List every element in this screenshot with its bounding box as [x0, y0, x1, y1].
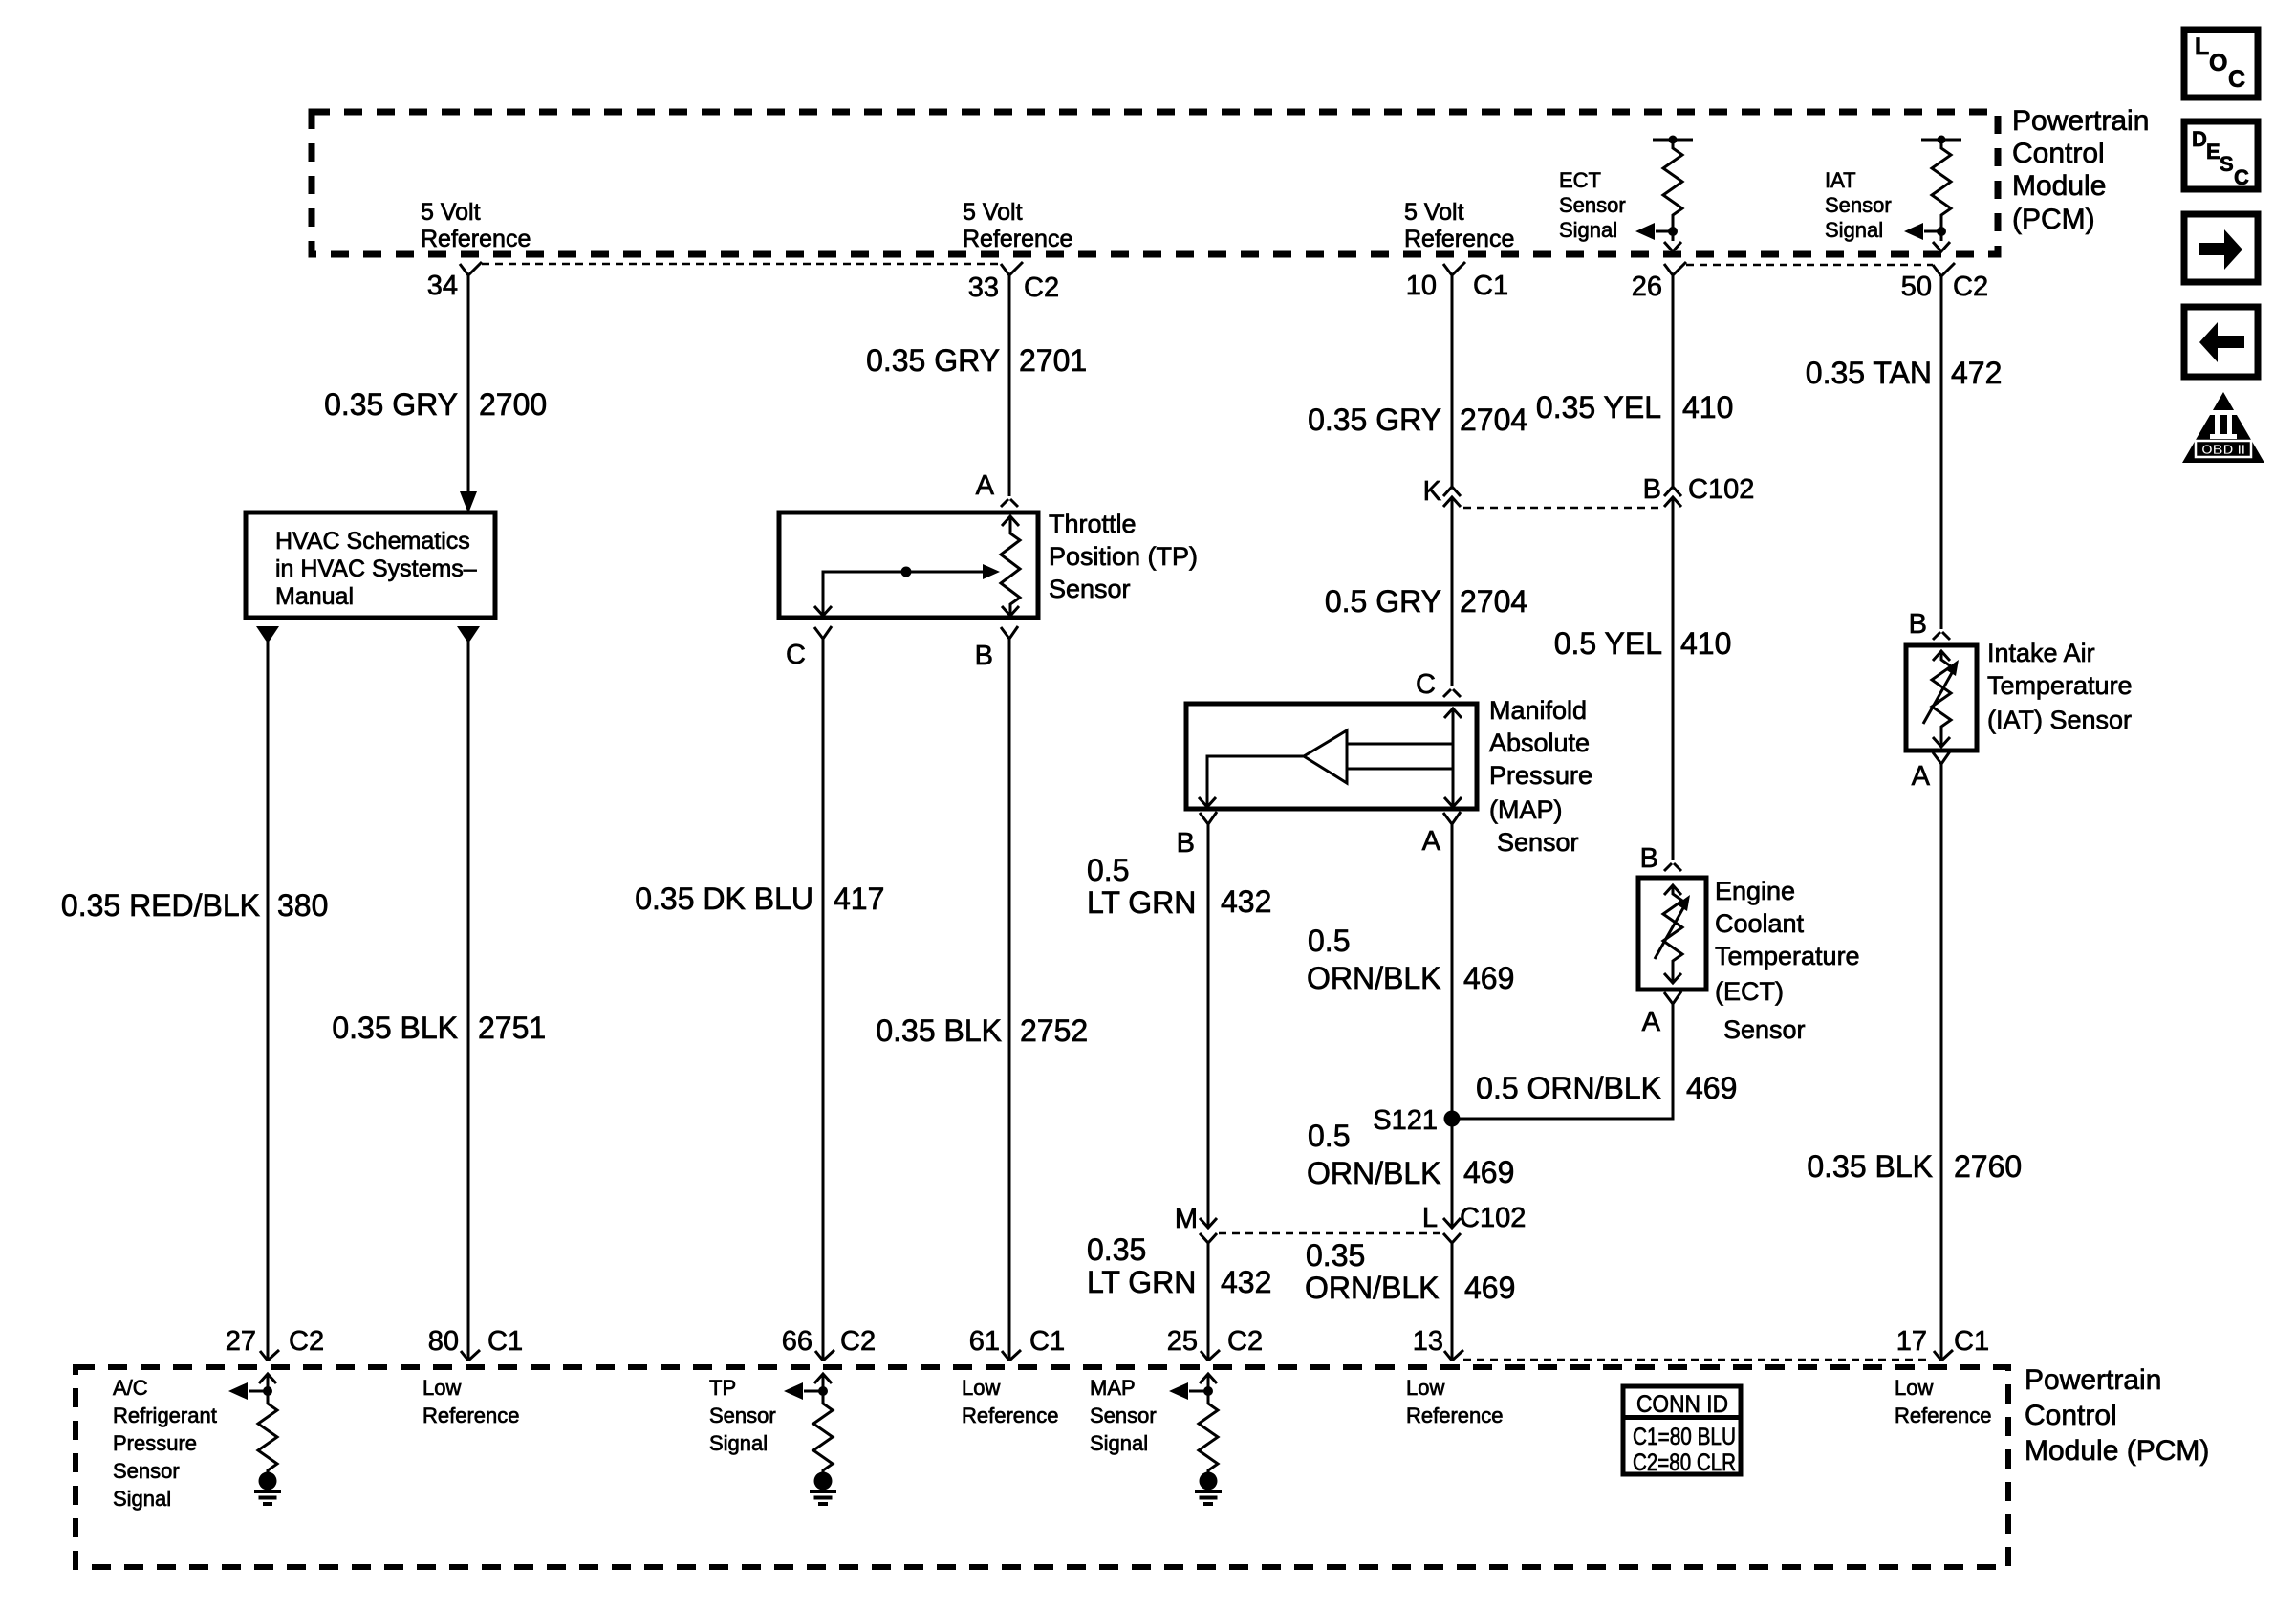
label wire 0.35 TAN 472 — [1806, 356, 2003, 390]
HVAC Schematics reference box — [246, 512, 495, 618]
svg-text:Low: Low — [962, 1376, 1000, 1400]
svg-text:OBD II: OBD II — [2201, 442, 2245, 458]
svg-text:66: 66 — [782, 1326, 812, 1357]
IAT sensor name — [1987, 639, 2133, 734]
wire MAP output — [1199, 756, 1304, 807]
svg-text:C1: C1 — [1029, 1326, 1065, 1357]
svg-text:Signal: Signal — [1090, 1431, 1148, 1455]
svg-text:C102: C102 — [1688, 474, 1754, 505]
svg-text:B: B — [1640, 843, 1658, 874]
icon forward arrow button — [2184, 214, 2258, 282]
label wire 0.35 BLK 2752 — [876, 1013, 1088, 1048]
label wire 0.35 GRY 2704 — [1308, 403, 1527, 437]
connector pin 10 (PCM C1) — [1443, 262, 1465, 287]
Throttle Position sensor box — [779, 512, 1038, 618]
MAP sensor name — [1489, 696, 1592, 857]
resistor IAT pullup in PCM — [1921, 136, 1961, 252]
PCM module (top) dashed outline — [312, 112, 1998, 254]
svg-text:Throttle: Throttle — [1049, 510, 1137, 538]
svg-text:Sensor: Sensor — [1497, 828, 1579, 857]
svg-text:0.35 BLK: 0.35 BLK — [1807, 1149, 1933, 1184]
wire 0.35 GRY 2700 pin34 to HVAC box — [467, 275, 470, 491]
connector dashed harness line 13 to 17 — [1463, 1359, 1932, 1361]
svg-text:61: 61 — [969, 1326, 1000, 1357]
table CONN ID — [1623, 1386, 1741, 1476]
svg-text:0.35 GRY: 0.35 GRY — [866, 343, 1000, 378]
label wire 0.35 GRY 2701 — [866, 343, 1087, 378]
wire TP wiper — [814, 564, 1000, 616]
wire 0.35 TAN 472 pin50 to IAT B — [1940, 276, 1943, 629]
wire 0.35 DK BLU 417 TP C to pin66 — [822, 639, 825, 1360]
svg-text:L: L — [2195, 33, 2209, 60]
net Low Reference label (pin 61) — [962, 1376, 1059, 1427]
connector pin 27 (PCM C2) — [260, 1350, 279, 1361]
icon DESC button — [2184, 121, 2258, 189]
connector pin 13 (PCM C1) — [1444, 1350, 1463, 1361]
svg-text:Low: Low — [1406, 1376, 1444, 1400]
connector L arrow (C102) — [1443, 1218, 1461, 1228]
icon OBD II badge — [2182, 392, 2264, 463]
svg-text:S121: S121 — [1373, 1105, 1438, 1136]
svg-text:0.35 DK BLU: 0.35 DK BLU — [635, 882, 813, 916]
net TP Sensor Signal label — [709, 1376, 776, 1455]
connector MAP pin C — [1443, 689, 1461, 697]
label wire 0.5 ORN/BLK 469 branch — [1476, 1071, 1737, 1105]
resistor TP element — [1001, 516, 1020, 616]
connector M arrow (C102) — [1200, 1218, 1217, 1228]
svg-text:MAP: MAP — [1090, 1376, 1136, 1400]
svg-text:C2: C2 — [840, 1326, 876, 1357]
svg-text:Sensor: Sensor — [709, 1404, 776, 1427]
resistor MAP signal input network — [1169, 1374, 1218, 1491]
net Low Reference label (pin 17) — [1895, 1376, 1992, 1427]
connector pin 34 (PCM C2) — [460, 262, 482, 287]
svg-text:C: C — [1416, 669, 1436, 700]
svg-text:Engine: Engine — [1715, 877, 1795, 905]
connector pin 50 (PCM C2) — [1933, 263, 1955, 287]
svg-text:S: S — [2220, 152, 2234, 176]
svg-text:Temperature: Temperature — [1987, 671, 2133, 700]
svg-text:469: 469 — [1463, 961, 1514, 995]
svg-text:469: 469 — [1464, 1271, 1515, 1305]
svg-text:417: 417 — [834, 882, 884, 916]
svg-text:380: 380 — [277, 888, 328, 923]
wire ECT sensor signal takeoff with arrow — [1635, 223, 1678, 240]
connector B arrow below — [1664, 497, 1681, 509]
svg-text:Sensor: Sensor — [113, 1459, 180, 1483]
connector IAT pin B — [1933, 632, 1950, 640]
net IAT Sensor Signal label — [1825, 168, 1892, 242]
svg-text:5 Volt: 5 Volt — [421, 199, 481, 226]
net 5 Volt Reference label (pin 10) — [1404, 199, 1514, 252]
wire 0.35 GRY 2704 pin10 to K — [1451, 275, 1454, 487]
connector K at C102 (chevron) — [1443, 487, 1461, 496]
svg-text:0.35 RED/BLK: 0.35 RED/BLK — [61, 888, 260, 923]
PCM (top) name text — [2012, 105, 2149, 235]
label wire 0.35 DK BLU 417 — [635, 882, 884, 916]
connector ECT pin B — [1664, 863, 1681, 871]
label wire 0.5 ORN/BLK 469 upper — [1307, 924, 1514, 995]
connector TP pin A — [1001, 499, 1018, 507]
wire 0.5 ORN/BLK 469 S121 to ECT A — [1452, 1004, 1673, 1119]
svg-text:80: 80 — [428, 1326, 459, 1357]
ground A/C network — [254, 1491, 281, 1504]
wire 0.35 BLK 2752 TP B to pin61 — [1008, 639, 1011, 1360]
net ECT Sensor Signal label — [1559, 168, 1626, 242]
connector pin 17 (PCM C1) — [1934, 1350, 1953, 1361]
svg-text:2704: 2704 — [1460, 403, 1527, 437]
svg-text:IAT: IAT — [1825, 168, 1856, 192]
svg-text:C: C — [786, 640, 806, 670]
net 5 Volt Reference label (pin 34) — [421, 199, 531, 252]
label wire 0.5 YEL 410 — [1554, 626, 1732, 661]
wire 0.5 ORN/BLK 469 MAP A to S121 — [1451, 824, 1454, 1228]
svg-text:HVAC Schematics: HVAC Schematics — [275, 528, 470, 555]
junction S121 — [1444, 1111, 1461, 1127]
svg-text:5 Volt: 5 Volt — [963, 199, 1023, 226]
svg-text:Reference: Reference — [422, 1404, 520, 1427]
ground TP network — [810, 1491, 836, 1504]
svg-text:in HVAC Systems–: in HVAC Systems– — [275, 555, 477, 582]
thermistor IAT element — [1923, 651, 1959, 747]
connector dashed C102 line K to B — [1463, 507, 1661, 510]
PCM module (bottom) dashed outline — [76, 1367, 2008, 1567]
svg-text:B: B — [1177, 828, 1195, 859]
svg-text:C: C — [2234, 165, 2249, 189]
svg-text:Reference: Reference — [1406, 1404, 1504, 1427]
svg-text:26: 26 — [1632, 272, 1662, 302]
connector M chevron below — [1200, 1233, 1217, 1243]
connector pin 33 (PCM C2) — [1001, 262, 1023, 287]
label wire 0.35 BLK 2751 — [332, 1011, 546, 1045]
svg-text:A: A — [1912, 761, 1931, 792]
svg-text:Absolute: Absolute — [1489, 729, 1590, 757]
icon back arrow button — [2184, 307, 2258, 377]
svg-text:Signal: Signal — [1825, 218, 1883, 242]
Intake Air Temperature sensor box — [1906, 645, 1977, 751]
wire 0.35 RED/BLK 380 HVAC to pin27 — [267, 642, 270, 1360]
connector pin 66 (PCM C2) — [815, 1350, 834, 1361]
svg-text:C102: C102 — [1460, 1203, 1526, 1233]
net Low Reference label (pin 13) — [1406, 1376, 1504, 1427]
svg-text:0.35 TAN: 0.35 TAN — [1806, 356, 1932, 390]
svg-text:2752: 2752 — [1020, 1013, 1088, 1048]
ground MAP network — [1195, 1491, 1222, 1504]
svg-text:0.35 BLK: 0.35 BLK — [332, 1011, 458, 1045]
net MAP Sensor Signal label — [1090, 1376, 1157, 1455]
svg-text:Reference: Reference — [1895, 1404, 1992, 1427]
TP sensor name — [1049, 510, 1198, 603]
connector IAT pin A — [1933, 751, 1950, 764]
offpage arrow low reference — [457, 626, 480, 643]
wire 0.35 BLK 2751 HVAC to pin80 — [467, 642, 470, 1360]
svg-text:ORN/BLK: ORN/BLK — [1307, 961, 1440, 995]
svg-text:33: 33 — [968, 272, 999, 303]
svg-text:Powertrain: Powertrain — [2025, 1364, 2161, 1396]
svg-text:(ECT): (ECT) — [1715, 977, 1784, 1006]
svg-text:B: B — [1643, 474, 1661, 505]
svg-text:C1: C1 — [1954, 1326, 1989, 1357]
wire 0.5 YEL 410 pin26 to B C102 — [1672, 275, 1675, 487]
connector dashed harness line 26 to 50 — [1686, 264, 1933, 267]
thermistor ECT element — [1655, 885, 1690, 983]
svg-text:Sensor: Sensor — [1723, 1015, 1806, 1044]
svg-text:Signal: Signal — [709, 1431, 768, 1455]
label wire 0.5 GRY 2704 — [1325, 584, 1527, 619]
net A/C Refrigerant Pressure Sensor Signal label — [113, 1376, 217, 1511]
svg-text:469: 469 — [1463, 1155, 1514, 1189]
svg-text:Manifold: Manifold — [1489, 696, 1587, 725]
svg-text:C1: C1 — [1473, 271, 1508, 301]
svg-text:D: D — [2192, 127, 2207, 151]
svg-text:Reference: Reference — [1404, 226, 1514, 252]
connector pin 80 (PCM C1) — [461, 1350, 480, 1361]
svg-text:0.5: 0.5 — [1308, 924, 1350, 958]
resistor ECT pullup in PCM — [1653, 136, 1693, 252]
svg-text:B: B — [1909, 609, 1927, 640]
svg-text:0.5 ORN/BLK: 0.5 ORN/BLK — [1476, 1071, 1661, 1105]
connector L chevron below — [1443, 1233, 1461, 1243]
wire 0.35 ORN/BLK 469 L to pin13 — [1451, 1243, 1454, 1360]
svg-text:2701: 2701 — [1019, 343, 1087, 378]
svg-text:LT GRN: LT GRN — [1087, 885, 1196, 920]
Engine Coolant Temperature sensor box — [1638, 878, 1706, 990]
svg-text:A: A — [1422, 826, 1441, 857]
offpage arrow A/C signal — [256, 626, 279, 643]
svg-text:Refrigerant: Refrigerant — [113, 1404, 217, 1427]
connector TP pin B — [1001, 626, 1018, 639]
svg-text:Sensor: Sensor — [1825, 193, 1892, 217]
svg-text:A/C: A/C — [113, 1376, 148, 1400]
svg-text:C2: C2 — [1024, 272, 1059, 303]
svg-text:2760: 2760 — [1954, 1149, 2022, 1184]
svg-text:A: A — [1642, 1007, 1661, 1037]
svg-text:0.35 GRY: 0.35 GRY — [1308, 403, 1441, 437]
svg-text:50: 50 — [1901, 272, 1932, 302]
svg-text:2751: 2751 — [478, 1011, 546, 1045]
svg-text:0.5: 0.5 — [1308, 1119, 1350, 1153]
svg-text:C2: C2 — [1953, 272, 1988, 302]
svg-text:13: 13 — [1413, 1326, 1443, 1357]
svg-text:Sensor: Sensor — [1090, 1404, 1157, 1427]
connector ECT pin A — [1664, 991, 1681, 1004]
svg-text:C: C — [2228, 66, 2245, 93]
label wire 0.35 LT GRN 432 lower — [1087, 1232, 1271, 1299]
svg-text:ORN/BLK: ORN/BLK — [1305, 1271, 1439, 1305]
svg-text:2704: 2704 — [1460, 584, 1527, 619]
resistor A/C signal input network — [228, 1374, 277, 1491]
svg-text:Sensor: Sensor — [1049, 575, 1131, 603]
wire IAT sensor signal takeoff with arrow — [1904, 223, 1946, 240]
svg-text:LT GRN: LT GRN — [1087, 1265, 1196, 1299]
svg-text:C2=80 CLR: C2=80 CLR — [1633, 1449, 1736, 1476]
net Low Reference label (pin 80) — [422, 1376, 520, 1427]
svg-text:CONN ID: CONN ID — [1636, 1391, 1728, 1418]
svg-text:Pressure: Pressure — [113, 1431, 197, 1455]
svg-text:O: O — [2209, 50, 2227, 76]
op-amp MAP buffer triangle — [1304, 730, 1347, 783]
svg-text:469: 469 — [1686, 1071, 1737, 1105]
wire 0.5 YEL 410 B to ECT B — [1672, 497, 1675, 860]
label wire 0.35 BLK 2760 — [1807, 1149, 2022, 1184]
svg-text:ORN/BLK: ORN/BLK — [1307, 1156, 1440, 1190]
svg-text:C2: C2 — [289, 1326, 324, 1357]
svg-text:0.35 BLK: 0.35 BLK — [876, 1013, 1002, 1048]
icon LOC button — [2184, 30, 2258, 98]
svg-text:5 Volt: 5 Volt — [1404, 199, 1464, 226]
svg-text:Module (PCM): Module (PCM) — [2025, 1435, 2209, 1467]
svg-text:27: 27 — [226, 1326, 256, 1357]
svg-text:(PCM): (PCM) — [2012, 204, 2095, 235]
svg-text:Signal: Signal — [113, 1487, 171, 1511]
wire 0.35 BLK 2760 IAT A to pin17 — [1940, 764, 1943, 1360]
svg-text:A: A — [976, 470, 995, 501]
svg-text:0.5 YEL: 0.5 YEL — [1554, 626, 1662, 661]
connector pin 25 (PCM C2) — [1201, 1350, 1220, 1361]
wire MAP internal vertical — [1347, 708, 1462, 807]
ECT sensor name — [1715, 877, 1860, 1044]
wire 0.35 GRY 2701 pin33 to TP A — [1008, 275, 1011, 496]
label wire 0.5 ORN/BLK 469 lower — [1307, 1119, 1514, 1190]
connector B at C102 (chevron) — [1664, 487, 1681, 496]
svg-text:0.35: 0.35 — [1087, 1232, 1146, 1267]
connector pin 61 (PCM C1) — [1002, 1350, 1021, 1361]
svg-text:Intake Air: Intake Air — [1987, 639, 2095, 667]
svg-text:Control: Control — [2012, 138, 2105, 169]
svg-text:432: 432 — [1221, 1265, 1271, 1299]
svg-text:0.5 GRY: 0.5 GRY — [1325, 584, 1441, 619]
svg-text:Reference: Reference — [963, 226, 1072, 252]
svg-text:E: E — [2206, 140, 2220, 163]
svg-text:472: 472 — [1951, 356, 2002, 390]
svg-text:Coolant: Coolant — [1715, 909, 1805, 938]
svg-text:C1: C1 — [487, 1326, 523, 1357]
svg-text:TP: TP — [709, 1376, 736, 1400]
svg-text:0.35 YEL: 0.35 YEL — [1536, 390, 1661, 425]
svg-text:(IAT) Sensor: (IAT) Sensor — [1987, 706, 2132, 734]
svg-text:Reference: Reference — [421, 226, 531, 252]
svg-text:0.5: 0.5 — [1087, 853, 1129, 887]
svg-text:Position (TP): Position (TP) — [1049, 542, 1198, 571]
svg-text:Sensor: Sensor — [1559, 193, 1626, 217]
svg-text:432: 432 — [1221, 884, 1271, 919]
svg-text:M: M — [1175, 1204, 1198, 1234]
connector K arrow below — [1443, 497, 1461, 509]
connector dashed harness line 34 to 33 — [482, 263, 1001, 266]
connector MAP pin A — [1443, 812, 1461, 824]
label wire 0.35 YEL 410 — [1536, 390, 1733, 425]
svg-text:C2: C2 — [1227, 1326, 1263, 1357]
svg-text:34: 34 — [427, 271, 458, 301]
svg-text:2700: 2700 — [479, 387, 547, 422]
net 5 Volt Reference label (pin 33) — [963, 199, 1072, 252]
svg-text:Control: Control — [2025, 1400, 2117, 1431]
svg-text:17: 17 — [1896, 1326, 1927, 1357]
svg-text:0.35: 0.35 — [1306, 1238, 1365, 1273]
svg-text:410: 410 — [1682, 390, 1733, 425]
connector pin 26 (PCM C1) — [1664, 262, 1686, 287]
svg-text:Low: Low — [1895, 1376, 1933, 1400]
connector TP pin C — [814, 626, 832, 639]
svg-text:K: K — [1423, 476, 1442, 507]
connector dashed C102 line M to L — [1219, 1232, 1441, 1235]
svg-text:Temperature: Temperature — [1715, 942, 1860, 970]
resistor TP signal input network — [784, 1374, 833, 1491]
svg-text:Module: Module — [2012, 170, 2106, 202]
svg-text:10: 10 — [1406, 271, 1437, 301]
label wire 0.35 RED/BLK 380 — [61, 888, 329, 923]
svg-text:Manual: Manual — [275, 583, 354, 610]
Manifold Absolute Pressure sensor box — [1186, 704, 1477, 809]
svg-text:B: B — [975, 641, 993, 671]
wire 0.5 GRY 2704 K to MAP C — [1451, 497, 1454, 686]
svg-text:C1=80 BLU: C1=80 BLU — [1633, 1424, 1736, 1450]
PCM (bottom) name text — [2025, 1364, 2209, 1467]
svg-text:(MAP): (MAP) — [1489, 795, 1563, 824]
svg-text:L: L — [1422, 1203, 1438, 1233]
svg-text:Signal: Signal — [1559, 218, 1617, 242]
connector MAP pin B — [1200, 812, 1217, 824]
svg-text:ECT: ECT — [1559, 168, 1601, 192]
wire 0.5 LT GRN 432 MAP B to M — [1207, 824, 1210, 1228]
arrow into HVAC box — [460, 491, 477, 513]
svg-text:Low: Low — [422, 1376, 461, 1400]
label wire 0.5 LT GRN 432 — [1087, 853, 1271, 920]
label wire 0.35 ORN/BLK 469 bottom — [1305, 1238, 1515, 1305]
svg-text:25: 25 — [1167, 1326, 1198, 1357]
svg-text:Pressure: Pressure — [1489, 761, 1592, 790]
svg-text:0.35 GRY: 0.35 GRY — [324, 387, 458, 422]
label wire 0.35 GRY 2700 — [324, 387, 547, 422]
svg-text:410: 410 — [1680, 626, 1731, 661]
svg-text:Powertrain: Powertrain — [2012, 105, 2149, 137]
wire 0.35 LT GRN 432 M to pin25 — [1207, 1243, 1210, 1360]
svg-text:Reference: Reference — [962, 1404, 1059, 1427]
